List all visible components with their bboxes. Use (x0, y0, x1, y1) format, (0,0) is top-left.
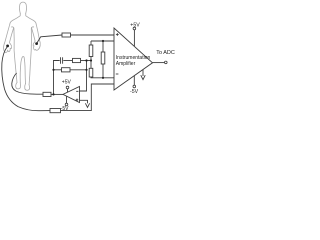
svg-text:+5V: +5V (62, 79, 72, 85)
svg-text:+5V: +5V (130, 22, 140, 28)
svg-text:-5V: -5V (130, 89, 139, 95)
svg-text:Amplifier: Amplifier (116, 61, 136, 67)
svg-text:To ADC: To ADC (156, 50, 175, 56)
svg-text:-5V: -5V (61, 106, 69, 112)
